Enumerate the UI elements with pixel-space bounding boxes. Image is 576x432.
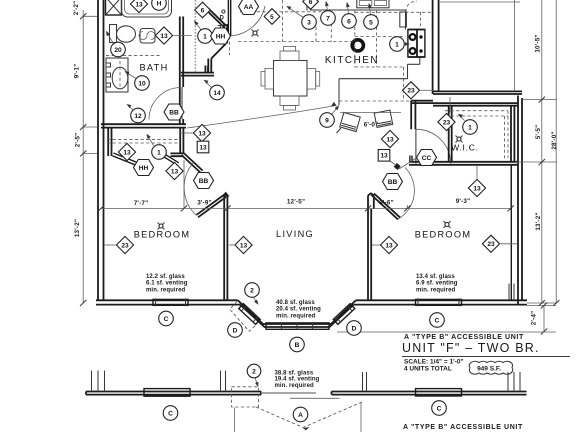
svg-text:BB: BB <box>169 109 179 116</box>
svg-text:20.4 sf. venting: 20.4 sf. venting <box>276 307 321 313</box>
svg-text:13: 13 <box>171 168 179 175</box>
svg-text:4 UNITS TOTAL: 4 UNITS TOTAL <box>404 366 452 373</box>
svg-text:D: D <box>352 325 357 332</box>
leader line: diamond 13 wic vertical <box>476 166 478 179</box>
svg-text:9'-3": 9'-3" <box>456 198 471 205</box>
circle 12 <box>131 108 146 123</box>
dashed: bedroom closet shelf <box>107 140 180 143</box>
circle 7 <box>321 11 336 26</box>
diamond 23 wic <box>438 113 455 130</box>
circle D bay right <box>347 321 362 336</box>
diamond 13 bath sink <box>155 27 172 44</box>
fixture: bathtub <box>122 0 172 17</box>
diamond 13 hall <box>193 124 210 141</box>
svg-text:UNIT "F" – TWO BR.: UNIT "F" – TWO BR. <box>402 341 540 355</box>
svg-text:13: 13 <box>385 242 393 249</box>
hexagon HH closet <box>134 160 154 176</box>
arrow: circle 1 wic leader <box>458 114 465 121</box>
dimension label: 5'-5" <box>535 125 542 140</box>
title: UNIT F TWO BR <box>402 341 540 355</box>
hexagon HH entry <box>211 28 231 44</box>
wall: wic west wall <box>449 106 452 162</box>
svg-text:13: 13 <box>198 130 206 137</box>
leader line: diamond 23 wic vertical <box>449 97 451 113</box>
circle 2 bay <box>245 283 260 298</box>
svg-text:12'-5": 12'-5" <box>287 198 305 205</box>
circle C bedroom2 <box>430 313 445 328</box>
arrow: circle 2 bay leader <box>254 297 259 305</box>
svg-text:1: 1 <box>468 124 472 131</box>
diamond 13 closet left <box>118 143 135 160</box>
leader line: leader to CC hexagon <box>399 158 417 170</box>
symbol: bedroom 2 ceiling light <box>444 221 451 228</box>
dimension: interior room dimension line <box>98 160 514 211</box>
svg-text:SCALE: 1/4" = 1'-0": SCALE: 1/4" = 1'-0" <box>404 359 464 366</box>
dashed: bath mirror line <box>106 55 160 88</box>
dimension label: 13'-2" left <box>74 219 81 237</box>
symbol: wic ceiling light <box>456 136 463 143</box>
dashed: lower unit V leader <box>256 402 362 430</box>
svg-text:23: 23 <box>443 119 451 126</box>
leader line: diamond 13 bedroom2 <box>372 244 380 246</box>
line: removed wall segment grey <box>261 392 316 394</box>
DIMS <box>73 0 559 335</box>
dashed: bay window guide corner <box>230 302 257 332</box>
dimension label: 10'-5" <box>534 34 541 52</box>
diamond 23 bedroom2 <box>482 235 499 252</box>
circle C bedroom1 <box>159 311 174 326</box>
MARKERS <box>104 0 518 352</box>
dimension label: 28'-0" <box>551 131 558 149</box>
diamond 13 bedroom1 <box>235 236 252 253</box>
wall: bottom exterior wall <box>96 300 527 304</box>
svg-text:6.1 sf. venting: 6.1 sf. venting <box>146 281 188 287</box>
circle A lower <box>293 407 308 422</box>
circle 6 <box>342 14 357 29</box>
svg-text:13'-2": 13'-2" <box>74 219 81 237</box>
window: bay bottom windows <box>266 323 329 329</box>
diamond 23 kitchen <box>402 82 419 99</box>
fixture: refrigerator <box>400 12 407 27</box>
dimension label: 2'-4" <box>530 311 537 326</box>
svg-text:AA: AA <box>244 4 254 11</box>
circle 1 range <box>390 37 405 52</box>
fixture: bath sink <box>139 29 155 44</box>
wall: entry closet jog <box>211 24 227 59</box>
soffit line: grey dotted vertical at entry <box>194 0 196 72</box>
svg-text:10: 10 <box>138 80 146 87</box>
leader line: diamond 23 bedroom1 <box>104 244 116 246</box>
wall: right exterior wall <box>511 96 522 305</box>
arrow: circle 10 leader <box>125 72 137 79</box>
svg-text:12.2 sf. glass: 12.2 sf. glass <box>146 274 185 280</box>
svg-text:13.4 sf. glass: 13.4 sf. glass <box>416 274 455 280</box>
svg-text:min. required: min. required <box>275 383 315 389</box>
wall: door jamb stub above bedroom2 wall <box>410 156 412 162</box>
wall: bedroom 2 / living wall <box>368 209 371 300</box>
svg-text:7'-7": 7'-7" <box>134 200 149 207</box>
window: bedroom 1 window <box>153 298 188 306</box>
svg-text:6: 6 <box>309 0 313 6</box>
door arc: wic door swing <box>416 129 451 163</box>
symbol: ceiling light entry <box>252 30 259 37</box>
fixture: range <box>408 30 425 58</box>
dimension label: 7'-7" <box>134 200 149 207</box>
svg-text:23: 23 <box>121 242 129 249</box>
title: units total <box>404 366 452 373</box>
circle 1 entry <box>198 29 213 44</box>
circle 1 wic <box>463 120 478 135</box>
svg-text:13: 13 <box>240 242 248 249</box>
svg-text:6: 6 <box>347 18 351 25</box>
wall: bedroom 1 / living wall <box>222 192 230 301</box>
svg-text:9: 9 <box>325 117 329 124</box>
svg-text:BEDROOM: BEDROOM <box>134 230 191 240</box>
circle C lower left <box>163 406 178 421</box>
svg-text:3'-9": 3'-9" <box>197 199 212 206</box>
hexagon BB hall1 <box>194 173 214 189</box>
square 13 hall <box>378 150 390 162</box>
wall: bedroom closet east stub <box>171 128 184 156</box>
diamond 4 top <box>303 0 319 9</box>
wall: bath east wall <box>180 17 183 125</box>
wall: top party wall vertical <box>433 0 439 94</box>
svg-text:5: 5 <box>270 14 274 21</box>
leader line: bay sill leader <box>337 331 556 333</box>
door arc: entry door swing <box>229 6 265 36</box>
dimension label: 12'-5" <box>287 198 305 205</box>
svg-text:H: H <box>157 0 162 7</box>
wall: lower unit bottom wall right part <box>332 392 527 395</box>
svg-text:13'-2": 13'-2" <box>535 212 542 230</box>
dashed: kitchen upper cabinets <box>238 0 432 101</box>
note: bedroom 1 glass note <box>146 274 188 293</box>
FIXTURES <box>106 0 463 230</box>
svg-text:min. required: min. required <box>276 313 316 319</box>
wall: kitchen south-east corner wall <box>411 101 433 103</box>
door arc: bath door <box>149 88 181 120</box>
extension line: top right <box>440 0 520 91</box>
svg-text:7: 7 <box>326 15 330 22</box>
wall: wic east wall <box>511 106 514 162</box>
wall: lower unit left jambs <box>92 371 105 392</box>
dimension label: 9'-1" <box>74 64 81 79</box>
svg-text:2: 2 <box>252 368 256 375</box>
diamond 23 bedroom1 <box>116 236 133 253</box>
svg-text:2: 2 <box>250 287 254 294</box>
diamond 6 entry <box>195 2 211 18</box>
circle 9 <box>320 113 335 128</box>
square 13 closet <box>197 141 209 153</box>
arrow: circle 1 closet leader <box>147 134 154 146</box>
svg-text:10'-5": 10'-5" <box>534 34 541 52</box>
wall: bedroom 2 north wall <box>409 162 518 165</box>
svg-text:LIVING: LIVING <box>276 229 314 239</box>
circle 20 <box>111 42 126 57</box>
fixture: toilet <box>110 25 136 43</box>
svg-text:13: 13 <box>160 33 168 40</box>
circle D bay left <box>228 323 243 338</box>
door arc: bedroom 2 swing <box>398 168 414 220</box>
room label: BEDROOM left <box>134 230 191 240</box>
svg-text:HH: HH <box>139 165 149 172</box>
symbol: cross mark <box>218 23 224 29</box>
svg-text:13: 13 <box>199 144 207 151</box>
wall: lower unit jamb pair right of opening <box>363 372 367 392</box>
dimension: left vertical dimension line <box>80 10 97 306</box>
svg-text:D: D <box>233 327 238 334</box>
circle B <box>290 337 305 352</box>
wall: entry door jamb <box>228 0 230 36</box>
arrow: circle 6 leader <box>346 2 350 14</box>
svg-text:23: 23 <box>407 88 415 95</box>
note: bay glass note <box>276 300 321 319</box>
svg-text:5'-5": 5'-5" <box>535 125 542 140</box>
svg-text:20: 20 <box>114 47 122 54</box>
svg-text:12: 12 <box>134 113 142 120</box>
svg-text:2'-4": 2'-4" <box>530 311 537 326</box>
room label: BATH <box>139 63 168 73</box>
wall: hall / wic west wall <box>411 101 415 129</box>
svg-text:6: 6 <box>201 7 205 14</box>
svg-text:HH: HH <box>216 33 226 40</box>
DASHED <box>106 0 508 331</box>
svg-text:W.I.C.: W.I.C. <box>451 143 479 153</box>
svg-text:C: C <box>437 405 442 412</box>
svg-text:3'-6": 3'-6" <box>379 200 394 207</box>
wall: bay window walls <box>238 300 356 327</box>
WALLS <box>96 0 527 329</box>
svg-text:13: 13 <box>135 1 143 8</box>
svg-text:C: C <box>168 410 173 417</box>
svg-text:1: 1 <box>395 41 399 48</box>
wall: lower unit bottom wall left part <box>86 392 261 395</box>
arrow: circle 2 lower leader <box>255 378 258 388</box>
dimension label: 2'-5" <box>75 133 82 148</box>
wall: top party wall horizontal <box>433 91 522 105</box>
window: bedroom 2 window <box>416 298 462 306</box>
arrow: circle 1 range leader <box>405 42 411 46</box>
wall: lower unit right jambs <box>508 372 520 392</box>
dimension label: 2'-2" <box>73 1 80 16</box>
note: lower unit glass note <box>275 371 320 389</box>
diamond 5 entry <box>264 9 280 25</box>
leader line: diamond 23 to kitchen wall <box>421 89 434 91</box>
leader line: square 13 to wall mark <box>390 161 397 166</box>
circle C lower right <box>432 401 447 416</box>
title underline <box>402 356 570 358</box>
diamond 13 wic <box>468 179 485 196</box>
diamond 13 closet right <box>166 162 183 179</box>
fixture: dining table <box>261 47 320 111</box>
room label: W.I.C. <box>451 143 479 153</box>
room label: KITCHEN <box>325 55 379 66</box>
svg-text:A "TYPE B" ACCESSIBLE UNIT: A "TYPE B" ACCESSIBLE UNIT <box>403 424 523 431</box>
diamond 13 bedroom2 <box>380 236 397 253</box>
window: bay right diagonal window <box>333 304 354 325</box>
fixture: shower with X <box>106 0 122 15</box>
circle 3 <box>302 15 317 30</box>
svg-text:13: 13 <box>123 149 131 156</box>
fixture: kitchen sink <box>357 0 389 8</box>
symbol: thermostat D <box>220 10 225 22</box>
symbol: kitchen ceiling fixture ring <box>352 40 363 51</box>
symbol: bedroom 1 ceiling light <box>158 223 165 230</box>
counter: kitchen counters <box>307 0 420 105</box>
dimension label: 3'-6" <box>379 200 394 207</box>
dashed: lower unit future opening box <box>232 387 259 407</box>
circle 1 closet <box>152 145 167 160</box>
symbol: wall mark between lights <box>394 163 401 170</box>
svg-text:6'-0": 6'-0" <box>364 122 379 129</box>
leader line: diamond 13 bedroom1 <box>229 244 234 246</box>
wall: bath south / closet north wall <box>101 124 186 127</box>
svg-text:A "TYPE B" ACCESSIBLE UNIT: A "TYPE B" ACCESSIBLE UNIT <box>404 334 524 341</box>
svg-text:23: 23 <box>487 241 495 248</box>
svg-text:1: 1 <box>157 149 161 156</box>
leader line: lower unit thin line <box>290 397 340 399</box>
svg-text:2'-5": 2'-5" <box>75 133 82 148</box>
wall: bottom wall right jamb ticks <box>509 284 519 300</box>
hexagon AA <box>239 0 259 15</box>
wall: angled wall at bedroom 1 door <box>182 153 203 173</box>
leader line: 6'-0" measure line <box>337 113 402 134</box>
arrow: circle 5 leader <box>368 3 372 15</box>
wall: left exterior wall <box>98 0 104 300</box>
circle 14 <box>210 85 225 100</box>
diamond 13 tub <box>130 0 147 13</box>
label: 6'-0" hall lights <box>364 122 379 129</box>
dimension: right vertical dimension lines <box>515 0 559 306</box>
door: entry closet bifold <box>206 8 226 28</box>
svg-text:min. required: min. required <box>146 287 186 293</box>
line: lower unit vertical thin left <box>234 408 236 432</box>
wall: entry hall wall <box>181 59 214 76</box>
wall: lower unit mid jamb pair <box>221 371 226 392</box>
note: bedroom 2 glass note <box>416 274 458 293</box>
door arc: bedroom 1 swing <box>184 163 196 216</box>
svg-text:9'-1": 9'-1" <box>74 64 81 79</box>
svg-text:C: C <box>435 317 440 324</box>
dimension label: 9'-3" <box>456 198 471 205</box>
hexagon BB hall2 <box>383 174 403 190</box>
svg-text:19.4 sf. venting: 19.4 sf. venting <box>275 377 320 383</box>
svg-text:BB: BB <box>388 179 398 186</box>
svg-text:13: 13 <box>386 136 394 143</box>
svg-text:3: 3 <box>307 19 311 26</box>
svg-text:BATH: BATH <box>139 63 168 73</box>
circle 10 <box>135 76 150 91</box>
svg-text:2'-2": 2'-2" <box>73 1 80 16</box>
fixture: vanity with basin <box>106 58 128 92</box>
LOWER UNIT DRAWING <box>86 364 527 432</box>
arrow: circle 12 leader <box>127 104 134 111</box>
svg-text:min. required: min. required <box>416 287 456 293</box>
door: bedroom 2 door leaf <box>372 194 401 220</box>
dimension: 2'-4" small right dim <box>527 303 556 335</box>
svg-text:949 S.F.: 949 S.F. <box>477 366 501 373</box>
svg-text:D: D <box>220 16 225 22</box>
title: lower accessible unit <box>403 424 523 431</box>
dimension label: 13'-2" right <box>535 212 542 230</box>
window: lower unit right window <box>416 389 462 396</box>
svg-text:28'-0": 28'-0" <box>551 131 558 149</box>
wall: bedroom 2 door stub <box>368 193 374 209</box>
arrow: circle 20 leader <box>106 31 114 45</box>
svg-text:BB: BB <box>199 178 209 185</box>
room label: LIVING <box>276 229 314 239</box>
arrow: circle 9 leader <box>332 105 340 115</box>
circle 2 lower <box>247 364 261 378</box>
room label: BEDROOM right <box>415 230 472 240</box>
leader curve: long spline from bedroom door to kitchen <box>187 102 337 128</box>
circle 5 <box>364 15 379 30</box>
svg-text:A: A <box>298 412 303 419</box>
window: bay left diagonal window <box>239 304 260 325</box>
arrow: circle 1 entry leader <box>194 20 202 30</box>
door: bedroom 1 door leaf <box>197 195 227 218</box>
hexagon CC <box>417 150 437 166</box>
svg-text:14: 14 <box>213 90 221 97</box>
dimension label: 3'-9" <box>197 199 212 206</box>
svg-text:6.9 sf. venting: 6.9 sf. venting <box>416 281 458 287</box>
svg-text:38.8 sf. glass: 38.8 sf. glass <box>275 371 314 377</box>
window: lower unit left window <box>144 389 190 397</box>
arrow: circle 14 leader <box>204 80 212 88</box>
svg-text:40.8 sf. glass: 40.8 sf. glass <box>276 300 315 306</box>
line: lower unit vertical thin right <box>360 402 362 432</box>
svg-text:B: B <box>295 342 300 349</box>
door: wic door leaf <box>415 129 417 163</box>
leader line: diamond 23 bedroom2 <box>501 243 518 245</box>
svg-text:CC: CC <box>422 155 432 162</box>
fixture: hall light 2 tilted <box>374 110 392 127</box>
svg-text:13: 13 <box>380 153 388 160</box>
hexagon BB bath <box>164 104 184 120</box>
leader line: diamond 13 to hall sink <box>174 35 192 37</box>
dashed: entry closet line <box>229 36 231 55</box>
diamond 13 hall2 <box>381 130 398 147</box>
arrow: circle 3 leader <box>286 6 303 18</box>
svg-text:1: 1 <box>203 33 207 40</box>
svg-text:C: C <box>164 316 169 323</box>
dashed: wic shelf <box>445 111 508 160</box>
wall: bedroom closet west stub <box>108 128 111 156</box>
title: 949 SF cloud <box>469 361 513 374</box>
svg-text:13: 13 <box>473 185 481 192</box>
fixture: hall light 1 tilted <box>340 112 360 131</box>
svg-text:5: 5 <box>369 19 373 26</box>
circle H <box>152 0 167 10</box>
title: scale line <box>404 359 464 366</box>
arrow: circle 7 leader <box>325 1 329 11</box>
title: A TYPE B ACCESSIBLE UNIT <box>404 334 524 341</box>
leader line: diamond 13 to closet wall <box>179 132 193 134</box>
svg-text:KITCHEN: KITCHEN <box>325 55 379 66</box>
svg-text:BEDROOM: BEDROOM <box>415 230 472 240</box>
door: closet bifold doors <box>113 150 179 167</box>
